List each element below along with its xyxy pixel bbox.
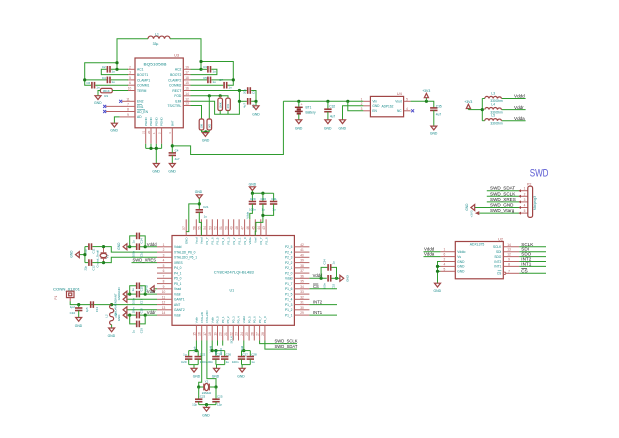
svg-text:NC: NC (397, 109, 402, 113)
svg-text:P2_4: P2_4 (285, 250, 293, 254)
svg-text:1u: 1u (331, 261, 335, 265)
ground Y1 (70, 250, 80, 258)
svg-text:13: 13 (162, 306, 166, 310)
wire U2 GND join (436, 262, 441, 284)
svg-text:P5_0: P5_0 (174, 277, 182, 281)
svg-text:23: 23 (235, 332, 239, 336)
svg-text:28: 28 (261, 332, 265, 336)
svg-text:Vs: Vs (457, 255, 461, 259)
svg-text:COMM1: COMM1 (137, 84, 149, 88)
svg-text:GND: GND (70, 250, 74, 258)
svg-text:P2: P2 (527, 183, 531, 187)
svg-text:17: 17 (185, 71, 189, 75)
svg-text:P2_2: P2_2 (285, 261, 293, 265)
wire PGND join (146, 144, 162, 164)
title SWD (530, 168, 549, 180)
svg-text:SCLK: SCLK (493, 245, 502, 249)
wire RECT row (191, 89, 247, 92)
svg-text:P0_5: P0_5 (247, 316, 251, 323)
capacitor C23 (192, 387, 205, 407)
wire ferrite rail (468, 99, 525, 121)
svg-text:C5: C5 (203, 76, 207, 80)
svg-text:Vssd: Vssd (200, 237, 204, 244)
capacitor C31 (261, 197, 277, 217)
wire ILIM row (191, 91, 247, 115)
svg-text:C18: C18 (140, 308, 144, 314)
svg-text:SWD_SDAT: SWD_SDAT (275, 344, 298, 349)
svg-text:C11: C11 (92, 248, 96, 253)
svg-text:GND: GND (117, 242, 121, 250)
no-connect X U4 NC (411, 109, 414, 112)
svg-text:+3V3: +3V3 (469, 210, 473, 217)
ground pin36 caps (340, 275, 350, 283)
svg-text:INT1: INT1 (521, 261, 531, 266)
wire Y2 gnd (199, 403, 216, 407)
svg-text:Crystal_Small: Crystal_Small (96, 250, 100, 268)
capacitor C21 (196, 205, 209, 236)
svg-text:1u: 1u (262, 207, 266, 211)
svg-text:1p5: 1p5 (85, 307, 89, 312)
svg-text:P2_3: P2_3 (285, 256, 293, 260)
svg-text:6: 6 (444, 253, 446, 257)
svg-text:Vout: Vout (395, 100, 401, 104)
ground PGND (152, 164, 160, 174)
no-connect X AD_EN (103, 110, 106, 113)
svg-text:6: 6 (129, 81, 131, 85)
svg-text:INT1: INT1 (313, 310, 323, 315)
svg-text:37: 37 (300, 269, 304, 273)
capacitor C18 series row14 (127, 307, 157, 319)
ferrite L5 (485, 114, 503, 126)
svg-text:P1_4: P1_4 (285, 298, 293, 302)
svg-text:GND: GND (237, 374, 245, 378)
label INT2 pin31 (309, 300, 337, 305)
svg-text:7: 7 (127, 102, 129, 106)
svg-text:50: 50 (224, 226, 228, 230)
svg-text:CLAMP2: CLAMP2 (168, 78, 181, 82)
U1 right pins (294, 243, 309, 315)
svg-text:U4: U4 (397, 91, 403, 96)
svg-text:Vddr: Vddr (174, 313, 182, 317)
svg-text:Vddd: Vddd (174, 245, 182, 249)
svg-text:PGND: PGND (149, 116, 153, 126)
svg-text:100n: 100n (323, 282, 327, 289)
svg-text:1n: 1n (96, 86, 100, 90)
svg-text:INT2: INT2 (494, 260, 501, 264)
svg-text:1u: 1u (212, 80, 216, 84)
capacitor C30 (255, 197, 266, 236)
wire pin15 to caps (189, 341, 199, 353)
svg-text:CS: CS (313, 284, 319, 289)
svg-text:14: 14 (185, 92, 189, 96)
svg-text:GND: GND (184, 237, 188, 245)
capacitor C36 series pin36 (323, 275, 340, 289)
svg-text:P0_0: P0_0 (216, 316, 220, 323)
svg-text:C28: C28 (251, 353, 257, 357)
svg-text:GND: GND (195, 190, 203, 194)
svg-text:Vddr: Vddr (195, 317, 199, 323)
svg-text:C3: C3 (203, 65, 207, 69)
capacitor C12 (83, 259, 103, 270)
svg-text:C21: C21 (203, 205, 209, 209)
svg-text:C13: C13 (95, 307, 99, 313)
svg-text:1u: 1u (183, 353, 187, 357)
svg-text:1u: 1u (111, 70, 115, 74)
svg-text:3: 3 (524, 198, 526, 202)
label SWD_SDAT (487, 186, 521, 191)
svg-text:GND: GND (212, 374, 220, 378)
svg-text:5: 5 (163, 264, 165, 268)
ground pair1 (189, 365, 201, 379)
U3 left pins EN2,EN1,AD_EN,AD no-connect (106, 97, 135, 117)
svg-text:Vddr: Vddr (147, 289, 156, 294)
svg-text:33µ: 33µ (153, 42, 159, 46)
svg-text:CS: CS (521, 268, 527, 273)
capacitor C25 (212, 387, 223, 407)
svg-text:55: 55 (197, 226, 201, 230)
wire C21 loop to pin57 (186, 204, 199, 232)
svg-text:SWD_XRES: SWD_XRES (133, 258, 157, 263)
svg-text:GND: GND (249, 182, 257, 186)
svg-text:20: 20 (219, 332, 223, 336)
svg-text:C30: C30 (261, 197, 267, 201)
capacitor C15 parallel row10 (130, 283, 146, 295)
svg-text:C2: C2 (102, 65, 106, 69)
svg-text:Battery: Battery (306, 111, 317, 115)
ground C10 (75, 318, 83, 328)
label Vddr row14 (147, 310, 156, 315)
svg-text:40: 40 (300, 253, 304, 257)
svg-text:Vddr: Vddr (147, 310, 156, 315)
crystal Y1 (96, 247, 110, 268)
svg-text:GND: GND (110, 129, 118, 133)
svg-text:L3: L3 (491, 91, 495, 95)
svg-text:U1: U1 (230, 289, 235, 293)
svg-text:7: 7 (508, 269, 510, 273)
svg-text:+: + (301, 103, 303, 107)
label SCLK (519, 242, 546, 247)
svg-text:47K: 47K (226, 104, 230, 109)
ferrite L4 (485, 102, 503, 114)
svg-text:C25: C25 (217, 395, 223, 399)
svg-text:P1_5: P1_5 (285, 292, 293, 296)
svg-text:32: 32 (300, 295, 304, 299)
svg-text:4: 4 (163, 259, 165, 263)
wire pin24 to caps (242, 341, 251, 353)
capacitor C19 parallel row14 below (130, 315, 146, 333)
capacitor C11 (83, 243, 103, 253)
svg-text:TERM: TERM (137, 89, 147, 93)
svg-text:10: 10 (128, 87, 132, 91)
label Vdda ferrite (514, 116, 525, 121)
capacitor C4bat (169, 149, 180, 164)
svg-text:39: 39 (300, 259, 304, 263)
ground Y2 (202, 407, 210, 417)
svg-text:5: 5 (406, 97, 408, 101)
svg-text:GND: GND (430, 132, 438, 136)
U1 bottom pins (192, 325, 265, 340)
svg-text:Vssd: Vssd (174, 287, 181, 291)
connector P1 CONN_01X01 (53, 287, 80, 301)
svg-text:12p: 12p (217, 403, 222, 407)
ground AD (110, 123, 118, 132)
svg-text:330Ohm: 330Ohm (490, 121, 503, 125)
label SCLK pin22 vertical (230, 336, 234, 344)
svg-text:56: 56 (192, 226, 196, 230)
svg-text:GND: GND (372, 104, 380, 108)
svg-text:4u7: 4u7 (243, 103, 247, 108)
wire Y1 to pins (102, 245, 157, 264)
svg-text:8: 8 (163, 280, 165, 284)
svg-text:14: 14 (162, 311, 166, 315)
svg-text:100n: 100n (132, 307, 136, 314)
ground R2R3 (202, 133, 210, 143)
svg-text:Vdda: Vdda (248, 237, 252, 244)
svg-text:GND: GND (252, 112, 260, 116)
svg-text:Vddd: Vddd (147, 242, 157, 247)
svg-text:P3_1: P3_1 (237, 237, 241, 244)
svg-text:CY8C4247LQI-BL483: CY8C4247LQI-BL483 (214, 271, 254, 275)
svg-text:GANT2: GANT2 (174, 308, 185, 312)
capacitor C16 series row1 (127, 243, 157, 257)
svg-text:GND: GND (193, 374, 201, 378)
label Vddd pin24 vertical (240, 345, 244, 352)
label SWD_SCLK pin27 (260, 339, 298, 344)
svg-text:P1_3: P1_3 (285, 303, 293, 307)
ferrite L3 (485, 91, 503, 103)
label Vddr row10 (147, 289, 156, 294)
svg-text:INT1: INT1 (494, 265, 501, 269)
svg-text:Vdda: Vdda (514, 116, 525, 121)
svg-text:43: 43 (262, 226, 266, 230)
label SWD_SCLK (487, 191, 521, 196)
svg-text:U3: U3 (174, 53, 180, 58)
svg-text:1: 1 (163, 243, 165, 247)
svg-text:31: 31 (300, 301, 304, 305)
label CS pin34 (309, 284, 337, 289)
ground C35 (430, 126, 438, 136)
svg-text:4: 4 (524, 204, 526, 208)
capacitor C32 (324, 101, 335, 120)
svg-text:41: 41 (300, 248, 304, 252)
resistor R4 (218, 96, 223, 111)
svg-text:XRES: XRES (174, 261, 183, 265)
svg-text:25: 25 (245, 332, 249, 336)
svg-text:1u: 1u (132, 330, 136, 334)
ground rect caps (252, 106, 260, 117)
svg-text:9: 9 (163, 285, 165, 289)
svg-text:Vddr: Vddr (514, 105, 524, 110)
capacitor C35 (430, 104, 442, 126)
svg-text:100K: 100K (218, 102, 222, 108)
svg-text:P0_7: P0_7 (258, 316, 262, 323)
ground SWD (465, 203, 475, 211)
svg-text:100n: 100n (132, 250, 136, 257)
svg-text:54: 54 (203, 226, 207, 230)
svg-text:CLAMP1: CLAMP1 (137, 78, 150, 82)
svg-text:Y1: Y1 (106, 254, 110, 258)
label SWD_GND (475, 203, 521, 208)
IC U3 BQ51050B body (135, 53, 183, 128)
svg-text:1u: 1u (272, 207, 276, 211)
svg-text:22p: 22p (83, 265, 87, 270)
svg-text:44: 44 (257, 226, 261, 230)
label Vdda U2 (424, 252, 441, 257)
svg-text:1u: 1u (204, 215, 208, 219)
svg-text:11: 11 (126, 97, 130, 101)
svg-text:48: 48 (235, 226, 239, 230)
svg-text:3: 3 (361, 107, 363, 111)
svg-text:L2: L2 (105, 314, 109, 318)
svg-text:BQ51050B: BQ51050B (144, 62, 168, 66)
svg-text:5: 5 (524, 209, 526, 213)
svg-text:GND: GND (295, 127, 303, 131)
ground pair2 (212, 365, 225, 379)
svg-text:100n: 100n (249, 207, 256, 211)
svg-text:15: 15 (185, 81, 189, 85)
resistor R5 (226, 98, 231, 110)
svg-text:+3V3: +3V3 (422, 89, 430, 93)
svg-text:38: 38 (300, 264, 304, 268)
svg-text:BOOT1: BOOT1 (137, 73, 148, 77)
svg-text:P3_2: P3_2 (232, 237, 236, 244)
svg-text:C14: C14 (140, 238, 144, 244)
svg-text:2: 2 (524, 192, 526, 196)
svg-text:C6: C6 (86, 81, 90, 85)
svg-text:Vddr: Vddr (210, 317, 214, 323)
svg-text:C4: C4 (102, 76, 106, 80)
svg-text:14: 14 (507, 243, 511, 247)
wire AC1 net to L1 (83, 39, 148, 85)
svg-text:P0_1: P0_1 (221, 316, 225, 323)
svg-text:P3_5: P3_5 (216, 237, 220, 244)
wire caps right rail (251, 91, 257, 106)
wire AC2 net to L1 right (170, 39, 235, 85)
ground C21 (195, 190, 203, 210)
svg-text:27: 27 (256, 332, 260, 336)
svg-text:36: 36 (300, 274, 304, 278)
svg-text:1: 1 (444, 248, 446, 252)
inductor L1 33u (148, 33, 170, 46)
svg-text:1u: 1u (131, 288, 135, 292)
label Vddd pin18 vertical (208, 345, 212, 352)
svg-text:P1_0: P1_0 (263, 316, 267, 323)
svg-text:17: 17 (203, 332, 207, 336)
svg-text:XTAL32O_P6_1: XTAL32O_P6_1 (174, 256, 197, 260)
svg-text:Vddd: Vddd (285, 277, 293, 281)
svg-text:12: 12 (162, 301, 166, 305)
svg-text:C10: C10 (70, 311, 76, 315)
svg-text:12: 12 (507, 253, 511, 257)
svg-text:GND: GND (346, 275, 350, 283)
svg-text:301K: 301K (103, 89, 110, 93)
svg-text:Vdda: Vdda (424, 252, 435, 257)
label INT2 (519, 257, 546, 262)
svg-text:C29: C29 (250, 197, 256, 201)
svg-text:30: 30 (300, 306, 304, 310)
svg-text:9: 9 (508, 258, 510, 262)
ground C4bat (168, 164, 176, 174)
svg-text:P5_1: P5_1 (174, 282, 182, 286)
ground GANT1 row11 (114, 293, 157, 305)
wire RECT-ILIM rail down (0, 0, 1, 1)
ground Vdda caps (249, 182, 257, 193)
svg-text:C26: C26 (226, 353, 232, 357)
svg-text:4u7: 4u7 (330, 114, 336, 118)
svg-text:4: 4 (444, 262, 446, 266)
svg-text:2: 2 (163, 248, 165, 252)
capacitor C6 comm left (86, 81, 100, 89)
svg-text:AC1: AC1 (137, 68, 144, 72)
U3 right pins (183, 65, 190, 105)
svg-text:4u7: 4u7 (175, 157, 180, 161)
svg-text:PGND: PGND (144, 116, 148, 126)
wire FOD row (191, 94, 229, 119)
svg-text:18: 18 (185, 76, 189, 80)
svg-text:GND: GND (202, 138, 210, 142)
svg-text:53: 53 (208, 226, 212, 230)
svg-text:C7: C7 (219, 78, 223, 82)
svg-text:8: 8 (127, 108, 129, 112)
capacitor comm right (191, 78, 232, 90)
svg-text:GNDANT: GNDANT (114, 293, 118, 305)
svg-text:P3_0: P3_0 (243, 237, 247, 244)
svg-text:P1_1: P1_1 (285, 313, 293, 317)
svg-text:Vddio: Vddio (457, 250, 465, 254)
svg-text:26: 26 (250, 332, 254, 336)
svg-text:P2_5: P2_5 (285, 245, 293, 249)
svg-text:Vref: Vref (254, 237, 258, 243)
svg-text:C35: C35 (436, 104, 442, 108)
svg-text:GND: GND (117, 315, 121, 321)
svg-text:P0_3: P0_3 (232, 316, 236, 323)
svg-text:P1_6: P1_6 (285, 287, 293, 291)
svg-text:ANT: ANT (174, 303, 180, 307)
capacitor C28 (247, 351, 257, 365)
svg-text:GND: GND (457, 265, 465, 269)
svg-text:19: 19 (214, 332, 218, 336)
connector P2 pins (518, 187, 528, 215)
battery BT1 (295, 101, 316, 120)
svg-text:BOOT2: BOOT2 (170, 73, 181, 77)
svg-text:100n: 100n (132, 297, 136, 304)
svg-text:C22: C22 (200, 353, 206, 357)
svg-text:7: 7 (163, 274, 165, 278)
inductor L2 antenna shunt (105, 305, 118, 328)
capacitor C10 antenna shunt (70, 305, 83, 318)
svg-text:Miniprog3: Miniprog3 (533, 196, 537, 210)
svg-text:Vddr: Vddr (174, 292, 182, 296)
svg-text:P2_6: P2_6 (264, 237, 268, 244)
label Vddd row1 (147, 242, 157, 247)
svg-text:SWD_XRES: SWD_XRES (490, 197, 516, 202)
svg-text:Vddd: Vddd (242, 316, 246, 323)
U1 left pins (157, 243, 172, 315)
svg-text:SWD_SDAT: SWD_SDAT (490, 186, 515, 191)
label Vddd U2 (424, 247, 441, 252)
svg-text:SWD_SCLK: SWD_SCLK (490, 191, 516, 196)
svg-text:45: 45 (251, 226, 255, 230)
svg-text:C20: C20 (181, 360, 187, 364)
svg-text:9: 9 (127, 113, 129, 117)
svg-text:AD_EN: AD_EN (137, 110, 149, 114)
svg-text:L4: L4 (491, 102, 495, 106)
svg-text:2: 2 (444, 258, 446, 262)
svg-text:EN: EN (372, 109, 377, 113)
svg-text:U2: U2 (498, 236, 504, 241)
svg-text:EN1: EN1 (137, 105, 144, 109)
capacitor C7 bootstrap right (191, 65, 217, 74)
